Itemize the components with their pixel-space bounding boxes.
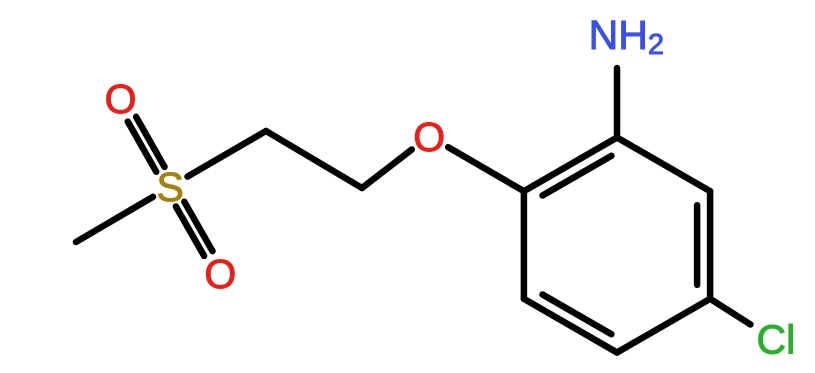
bond CH2-CH2 [266,131,362,188]
bond S=O bottom line 2 [176,207,204,256]
ring bond C2-C3 [617,138,710,192]
ring bond C1-C2 [524,138,617,192]
svg-text:O: O [413,114,445,160]
bond S-CH3 [76,197,153,242]
svg-text:O: O [204,251,236,297]
svg-text:Cl: Cl [757,316,796,362]
bond C4-Cl [710,299,750,325]
bond S=O top line 2 [136,117,164,167]
svg-text:O: O [105,76,137,122]
bond S=O bottom line 1 [184,202,212,251]
ring bond C3-C4 [707,191,714,299]
bond CH2-O [362,150,412,189]
ring bond C5=C6 inner [543,295,612,335]
bond S=O top line 1 [128,122,156,172]
ring bond C4-C5 [617,299,710,353]
svg-text:S: S [157,164,184,210]
bond S-CH2 [188,131,267,177]
ring bond C6-C1 [521,191,528,299]
bond O-C1 [448,147,524,191]
ring bond C5-C6 [524,299,617,353]
bond C2-NH2 [614,68,621,138]
ring bond C1=C2 inner [543,156,612,196]
ring bond C3=C4 inner [694,205,701,285]
